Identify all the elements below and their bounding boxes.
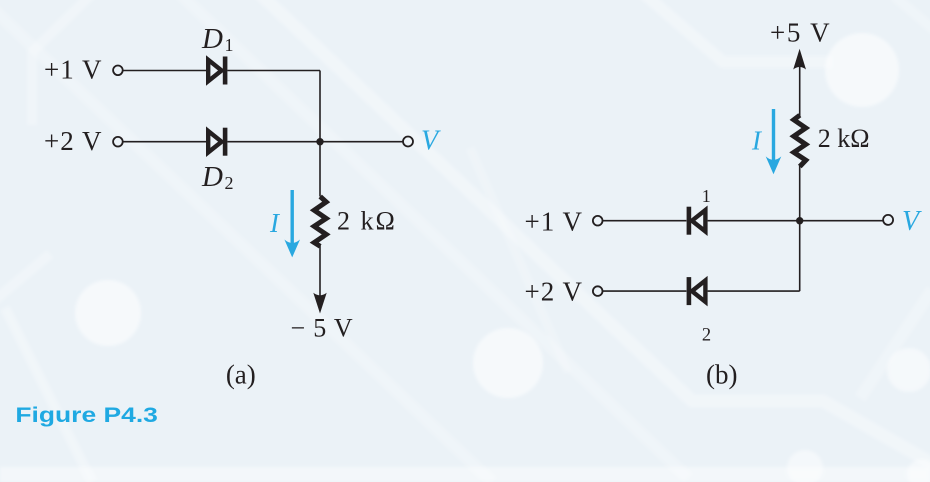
svg-text:Figure P4.3: Figure P4.3 xyxy=(15,403,158,427)
svg-text:+2 V: +2 V xyxy=(44,126,103,156)
svg-text:+2 V: +2 V xyxy=(525,276,584,306)
svg-text:2 kΩ: 2 kΩ xyxy=(818,124,870,153)
svg-text:+1 V: +1 V xyxy=(525,207,584,237)
svg-text:+1 V: +1 V xyxy=(44,55,103,85)
svg-text:2 kΩ: 2 kΩ xyxy=(337,206,397,235)
svg-text:1: 1 xyxy=(702,186,711,206)
svg-text:V: V xyxy=(421,126,441,157)
svg-text:(a): (a) xyxy=(226,360,256,390)
svg-text:(b): (b) xyxy=(706,360,737,390)
svg-text:2: 2 xyxy=(702,326,711,346)
svg-text:V: V xyxy=(902,206,922,237)
svg-text:+5 V: +5 V xyxy=(770,17,831,47)
svg-text:− 5 V: − 5 V xyxy=(291,314,354,343)
